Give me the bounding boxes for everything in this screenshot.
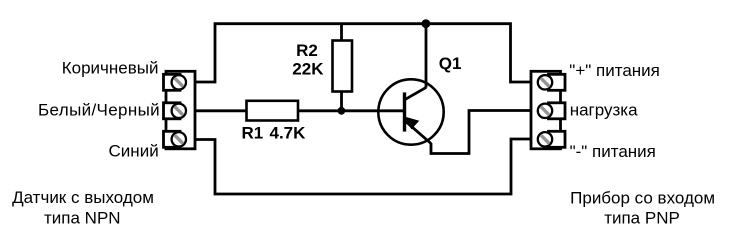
- svg-text:Прибор со входом: Прибор со входом: [570, 188, 715, 207]
- svg-text:"-" питания: "-" питания: [570, 142, 656, 161]
- svg-text:Датчик с выходом: Датчик с выходом: [12, 188, 154, 207]
- svg-text:типа NPN: типа NPN: [44, 209, 121, 228]
- svg-text:4.7K: 4.7K: [270, 123, 307, 142]
- svg-text:22K: 22K: [292, 59, 324, 78]
- svg-text:Синий: Синий: [109, 142, 159, 161]
- svg-text:"+" питания: "+" питания: [569, 61, 660, 80]
- svg-text:R2: R2: [296, 41, 318, 60]
- svg-text:Q1: Q1: [439, 54, 462, 73]
- svg-text:нагрузка: нагрузка: [570, 100, 638, 119]
- svg-text:R1: R1: [242, 123, 264, 142]
- svg-text:Коричневый: Коричневый: [62, 58, 159, 77]
- svg-text:типа PNP: типа PNP: [604, 208, 680, 227]
- svg-text:Белый/Черный: Белый/Черный: [38, 101, 160, 120]
